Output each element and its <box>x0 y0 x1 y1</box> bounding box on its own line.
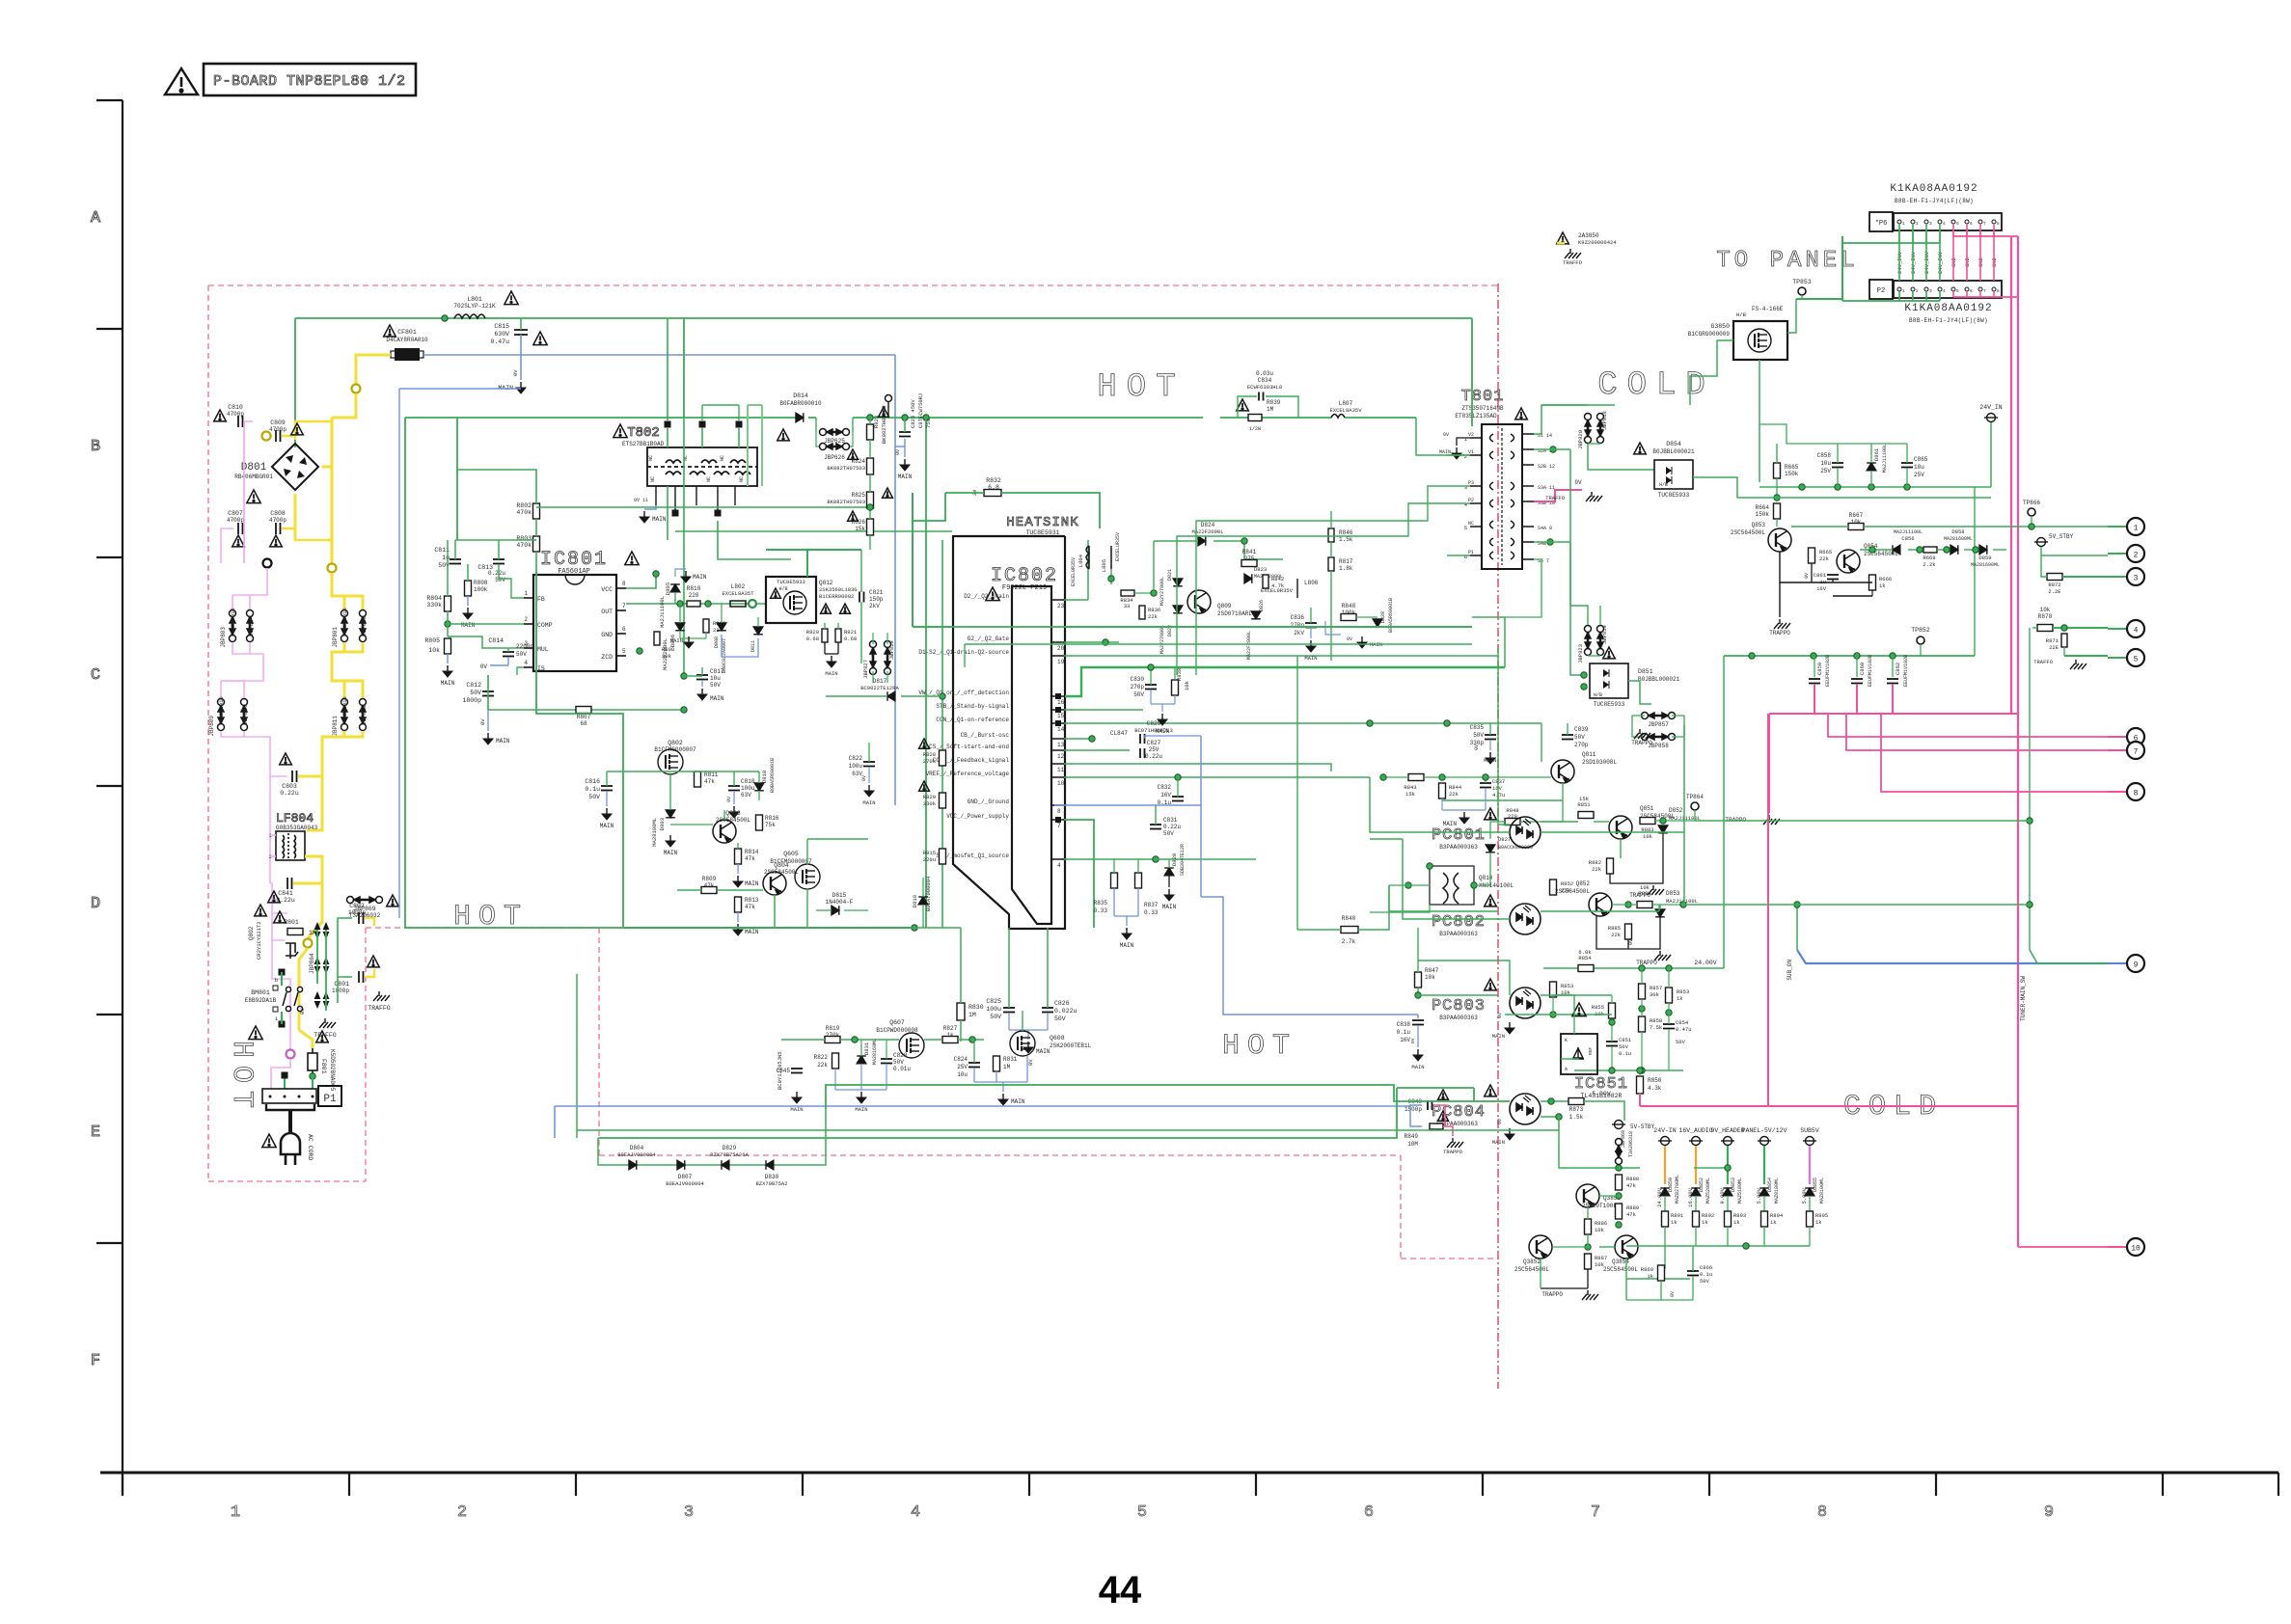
wire blue second rail top <box>399 388 521 390</box>
wire green big loop <box>536 570 623 928</box>
svg-text:16V_AUDIO: 16V_AUDIO <box>1678 1127 1712 1134</box>
wire green jbp857 link <box>1672 716 1684 737</box>
wire green Q809 c <box>1244 541 1283 559</box>
svg-text:100u: 100u <box>986 1006 1001 1013</box>
svg-text:C858: C858 <box>1817 452 1832 459</box>
svg-text:P1: P1 <box>323 1094 337 1105</box>
svg-text:D853: D853 <box>1666 890 1680 897</box>
svg-text:47k: 47k <box>1626 1211 1637 1218</box>
jumper JBP804 <box>247 610 254 642</box>
svg-text:R831: R831 <box>1003 1056 1018 1063</box>
wire green R804 <box>447 540 449 596</box>
capacitor C861 <box>1827 575 1839 580</box>
svg-text:D811: D811 <box>750 640 756 652</box>
inductor L801 <box>454 314 485 318</box>
svg-text:REF: REF <box>1588 1047 1594 1055</box>
resistor R843 <box>1408 774 1424 781</box>
svg-text:10: 10 <box>1057 780 1065 787</box>
svg-text:R808: R808 <box>662 646 674 653</box>
filter CF801 <box>395 348 420 361</box>
wire green Q851 row <box>1655 820 1695 822</box>
svg-text:EXCEL8A35T: EXCEL8A35T <box>722 590 754 597</box>
resistor R802 <box>533 503 540 519</box>
wire 24V-IN colored <box>1664 1146 1666 1184</box>
wire green R848b net <box>1520 821 1563 823</box>
svg-text:702SLYP-121K: 702SLYP-121K <box>453 303 496 310</box>
wire violet cluster1 bottom b <box>249 642 251 654</box>
svg-text:TO PANEL: TO PANEL <box>1716 248 1858 274</box>
capacitor C860 <box>1851 679 1863 684</box>
wire green R846 net <box>1330 511 1332 528</box>
optocoupler PC803 <box>1510 988 1541 1018</box>
wire green out3 <box>2062 576 2108 578</box>
diode D811 <box>753 627 763 635</box>
svg-text:D859: D859 <box>1978 555 1991 561</box>
wire magenta out10 <box>2018 1246 2108 1248</box>
ground MAIN Q608 <box>998 1094 1008 1105</box>
wire green T801 p2 long <box>1177 503 1447 675</box>
svg-text:R835: R835 <box>1094 900 1108 907</box>
wire green T801 pin1 gnd <box>1457 438 1470 446</box>
line-filter LF804 <box>276 831 305 860</box>
svg-text:G2_/_Q2_Gate: G2_/_Q2_Gate <box>968 636 1010 642</box>
resistor R886 <box>1585 1219 1592 1234</box>
svg-text:TUC8E5933: TUC8E5933 <box>1594 701 1625 708</box>
svg-text:NC: NC <box>720 455 725 461</box>
ground TRAPPO C840 <box>1447 1138 1463 1148</box>
svg-text:R851: R851 <box>1577 801 1591 808</box>
capacitor C829 <box>1140 734 1145 744</box>
svg-text:F: F <box>91 1352 100 1370</box>
wire green rail A pin16 to T801 <box>1472 617 1505 667</box>
warning triangle R825 <box>883 488 893 498</box>
ground MAIN C825 <box>1023 1042 1033 1053</box>
diode D807 <box>677 1160 685 1170</box>
svg-text:L806: L806 <box>1304 580 1319 586</box>
svg-text:R815: R815 <box>923 850 936 856</box>
svg-text:D830: D830 <box>765 1174 779 1180</box>
svg-text:C854: C854 <box>1676 1019 1689 1026</box>
wire green T801 p3 long <box>1196 486 1447 675</box>
bottom ruler tick <box>2162 1473 2164 1496</box>
left ruler tick <box>96 785 123 787</box>
svg-text:MA281600ML: MA281600ML <box>1971 562 2000 568</box>
wire green COMP pin <box>448 623 524 625</box>
svg-text:D3850: D3850 <box>1668 1177 1674 1192</box>
diode D822 <box>1173 606 1183 613</box>
svg-text:24V-IN: 24V-IN <box>1653 1127 1677 1134</box>
HOT area dashed boundary top edge <box>208 284 1498 286</box>
capacitor C815 <box>514 330 528 335</box>
warning triangle relay <box>249 1026 262 1040</box>
wire green pc804 net <box>1582 1167 1640 1169</box>
svg-text:Q851: Q851 <box>1640 805 1654 812</box>
wire green D851 right <box>1628 681 1651 704</box>
warning triangle F801 <box>316 1031 329 1042</box>
warning triangle C840 <box>1438 1090 1449 1099</box>
capacitor C823 <box>899 432 911 437</box>
wire green Q812 src <box>824 623 826 629</box>
svg-text:2: 2 <box>457 1503 467 1522</box>
left ruler tick <box>96 1242 123 1244</box>
wire green P6 bus <box>1842 242 1940 244</box>
yellow circle CF801 <box>352 385 361 393</box>
wire green pin14 <box>1064 722 1541 724</box>
svg-text:NC: NC <box>706 476 712 482</box>
svg-text:R827: R827 <box>943 1025 958 1032</box>
svg-text:C826: C826 <box>1054 1000 1070 1007</box>
wire green out4 <box>2053 627 2108 629</box>
svg-text:2: 2 <box>1916 288 1919 294</box>
wire green sub_on vert <box>1796 905 1798 950</box>
svg-text:50V: 50V <box>470 690 481 696</box>
junction rails bus <box>1743 1243 1749 1249</box>
left ruler line <box>122 100 123 1495</box>
svg-text:LF804: LF804 <box>276 811 314 826</box>
svg-text:22k: 22k <box>1449 791 1459 798</box>
svg-text:R836: R836 <box>1148 607 1160 613</box>
ac cord stem <box>288 1110 292 1127</box>
output node 8 <box>2127 783 2144 800</box>
jumper JBP820 <box>1585 414 1592 444</box>
wire magenta R850 bottom <box>1639 1094 1641 1106</box>
svg-text:R846: R846 <box>1339 529 1353 536</box>
svg-text:MAIN: MAIN <box>745 880 759 887</box>
wire green tuner vert <box>2030 950 2108 963</box>
wire yellow cluster1 bottom <box>332 642 344 698</box>
svg-text:Q812: Q812 <box>819 580 833 586</box>
svg-text:NC: NC <box>650 476 656 482</box>
warning triangle R824 <box>848 449 859 459</box>
svg-text:SDB304TE12R: SDB304TE12R <box>1180 844 1186 876</box>
resistor R809 <box>701 887 717 894</box>
npn Q854 <box>1837 550 1860 573</box>
svg-text:100u: 100u <box>849 763 863 770</box>
svg-text:0V: 0V <box>1027 1059 1034 1066</box>
svg-text:Q3852: Q3852 <box>1523 1259 1541 1265</box>
svg-text:9V_HEADER: 9V_HEADER <box>1710 1127 1744 1134</box>
svg-text:10u: 10u <box>957 1071 968 1078</box>
jumper JBP828 <box>885 641 891 675</box>
wire violet LF804 left pins <box>270 834 276 836</box>
svg-text:R891: R891 <box>1671 1212 1684 1219</box>
svg-text:ETS27BB1B0AD: ETS27BB1B0AD <box>622 441 665 447</box>
svg-text:0V: 0V <box>1628 939 1634 945</box>
svg-text:CR2Y1CY821T2: CR2Y1CY821T2 <box>256 921 262 960</box>
wire green R665 top link <box>1776 444 1778 463</box>
wire green 1052 rail <box>1505 1014 1612 1015</box>
svg-text:3: 3 <box>1464 484 1467 491</box>
svg-text:2SC584500L: 2SC584500L <box>716 817 750 824</box>
wire yellow bridge bottom <box>294 494 297 540</box>
svg-text:D808: D808 <box>714 636 720 648</box>
wire green R834 <box>1134 592 1154 594</box>
wire green heatsink left rail <box>941 540 943 928</box>
resistor R846 <box>1328 528 1334 542</box>
svg-text:Q803: Q803 <box>725 810 741 817</box>
svg-text:D851: D851 <box>1638 668 1653 675</box>
svg-text:270p: 270p <box>1291 622 1305 629</box>
svg-text:R853: R853 <box>1561 983 1573 989</box>
warning triangle JBP869 <box>387 895 399 907</box>
jumper JBP810 <box>241 699 248 731</box>
svg-text:BZX79B75A2: BZX79B75A2 <box>755 1180 787 1187</box>
wire green R838 top <box>1174 667 1176 680</box>
bottom ruler tick <box>1255 1473 1257 1496</box>
ground TRAPPO pink <box>1763 815 1780 825</box>
resistor R822 <box>832 1053 839 1069</box>
svg-text:MAIN: MAIN <box>664 850 678 856</box>
wire green S4B down <box>1569 542 1571 606</box>
wire violet C803 left <box>270 775 287 777</box>
svg-text:JBP812: JBP812 <box>361 704 368 725</box>
wire yellow C802 right <box>365 918 374 926</box>
ic IC801 pins right <box>616 587 626 589</box>
svg-text:STB_/_Stand-by-signal: STB_/_Stand-by-signal <box>936 703 1009 710</box>
npn Q851 <box>1609 816 1632 839</box>
svg-text:P1: P1 <box>1468 550 1474 555</box>
svg-text:D807: D807 <box>678 1174 693 1180</box>
resistor R837 <box>1135 873 1142 888</box>
svg-text:R820: R820 <box>806 629 819 636</box>
resistor R821 <box>835 629 841 642</box>
wire violet to jumper cluster 1 <box>232 568 267 595</box>
bottom ruler tick <box>575 1473 577 1496</box>
svg-text:R664: R664 <box>1756 504 1770 511</box>
svg-text:D3853: D3853 <box>1731 1177 1736 1192</box>
wire magenta ic851 bus <box>1640 1105 2018 1107</box>
svg-text:S1_/_mosfet_Q1_source: S1_/_mosfet_Q1_source <box>936 853 1009 859</box>
bottom ruler tick <box>802 1473 804 1496</box>
wire green R835 top <box>1113 859 1115 873</box>
svg-text:Q802: Q802 <box>668 740 683 746</box>
wire magenta out6 <box>1828 714 2108 737</box>
svg-text:MAIN: MAIN <box>1484 757 1496 764</box>
svg-text:Q608: Q608 <box>1050 1035 1065 1042</box>
svg-text:Q605: Q605 <box>783 851 799 857</box>
svg-text:0.33: 0.33 <box>1094 907 1108 914</box>
svg-text:GND: GND <box>601 632 613 638</box>
svg-text:44: 44 <box>1099 1569 1142 1611</box>
wire yellow C808 bridge <box>295 501 332 540</box>
wire yellow CF801 left <box>356 355 391 384</box>
output node 3 <box>2127 568 2144 585</box>
svg-text:TP853: TP853 <box>1792 279 1812 285</box>
svg-text:0.33: 0.33 <box>1144 909 1159 916</box>
wire magenta out7 <box>1846 714 2108 750</box>
wire green rail 650 left stub <box>912 493 914 627</box>
svg-text:1800p: 1800p <box>462 697 481 704</box>
wire yellow cluster1 bottom b <box>344 642 363 652</box>
capacitor C835 <box>1485 735 1496 740</box>
wire green diode row right <box>801 1109 826 1165</box>
svg-text:25V: 25V <box>1914 472 1924 478</box>
svg-text:1k: 1k <box>1671 1219 1677 1226</box>
svg-text:C807: C807 <box>228 510 243 517</box>
svg-text:D820: D820 <box>1171 853 1178 866</box>
wire green heatsink bottom rail <box>623 927 914 929</box>
wire green Q811 wiring <box>1562 783 1564 800</box>
wire magenta P6 bus <box>1953 235 2018 237</box>
svg-text:MAIN: MAIN <box>1011 1098 1025 1105</box>
jumper JBP819 <box>1597 626 1604 656</box>
wire magenta gnd drop <box>1768 714 1770 813</box>
resistor R827 <box>942 1037 958 1043</box>
output node 7 <box>2127 742 2144 759</box>
capacitor C822 <box>863 762 875 767</box>
wire blue C816 <box>606 791 608 806</box>
wire green D854 right <box>1693 477 1773 498</box>
svg-text:10k: 10k <box>1643 833 1653 840</box>
svg-text:D3852: D3852 <box>1699 1177 1705 1192</box>
svg-text:10k: 10k <box>1595 1261 1605 1268</box>
svg-text:MAIN: MAIN <box>652 516 667 523</box>
svg-text:0V: 0V <box>299 1008 306 1015</box>
mosfet Q608 <box>1010 1031 1035 1056</box>
svg-text:3: 3 <box>2134 575 2139 583</box>
capacitor C854 <box>1663 1024 1675 1029</box>
wire violet down to C841 <box>270 883 287 913</box>
svg-text:R895: R895 <box>1815 1212 1828 1219</box>
wire green Q804 emitter <box>774 895 776 928</box>
wire green 736 up <box>487 675 489 710</box>
junction rail736 <box>681 707 687 713</box>
resistor R895 <box>1807 1211 1814 1227</box>
svg-text:COLD: COLD <box>1597 367 1715 404</box>
junction R804 bottom <box>445 621 450 627</box>
wire green R893 bottom <box>1727 1227 1729 1246</box>
inductor L804 <box>1088 546 1090 569</box>
svg-text:CF801: CF801 <box>397 329 417 336</box>
wire green long 902 <box>1541 723 1542 762</box>
svg-text:10k: 10k <box>1595 1227 1605 1233</box>
svg-text:6: 6 <box>1364 1503 1374 1522</box>
svg-text:7: 7 <box>622 603 626 609</box>
terminal PANEL-5V/12V <box>1758 1137 1771 1146</box>
svg-text:50V: 50V <box>1473 732 1484 739</box>
svg-text:50V: 50V <box>1574 734 1585 741</box>
svg-text:B3PAA000363: B3PAA000363 <box>1439 844 1478 851</box>
test point TP852 <box>1917 636 1924 644</box>
svg-text:JBP818: JBP818 <box>1601 411 1608 430</box>
svg-text:D810: D810 <box>761 771 768 783</box>
wire green relay top pin <box>281 972 283 986</box>
svg-text:R832: R832 <box>986 477 1001 484</box>
svg-text:1.5k: 1.5k <box>1569 1114 1584 1121</box>
wire green r664 col <box>1773 497 1991 499</box>
svg-text:8: 8 <box>1057 808 1061 815</box>
svg-text:T3A205016: T3A205016 <box>341 608 348 636</box>
svg-text:TP866: TP866 <box>2023 500 2040 506</box>
svg-text:R840: R840 <box>1342 915 1356 922</box>
wire yellow cluster2 top b <box>344 681 363 698</box>
wire green Q608 top <box>1022 1011 1023 1031</box>
warning triangle T801 <box>1515 408 1528 420</box>
svg-text:220u: 220u <box>923 856 936 863</box>
svg-text:B1CERR00002: B1CERR00002 <box>819 593 854 600</box>
wire blue pin8 <box>1054 804 1201 806</box>
diode chain D859 <box>1979 545 1987 555</box>
wire green R827 <box>924 1039 942 1041</box>
capacitor C827 <box>1140 748 1145 758</box>
resistor R820 <box>822 629 828 642</box>
svg-text:MAIN: MAIN <box>1439 449 1451 455</box>
mosfet Q607 <box>899 1033 924 1058</box>
svg-text:Q853: Q853 <box>1752 522 1766 528</box>
svg-text:C862: C862 <box>1895 663 1901 675</box>
label TP866 <box>2028 508 2035 516</box>
wire violet cluster2 frame b <box>243 681 245 698</box>
svg-text:MUL: MUL <box>537 646 549 653</box>
svg-text:5V-STBY: 5V-STBY <box>1630 1123 1655 1130</box>
capacitor C858 <box>1832 463 1843 468</box>
svg-text:MAIN: MAIN <box>600 823 614 829</box>
wire yellow to cluster1 <box>332 573 363 609</box>
ground TRAFFO out5 <box>2070 660 2086 669</box>
svg-text:JBP857: JBP857 <box>1648 721 1669 728</box>
capacitor C817 <box>696 675 708 680</box>
resistor R834 <box>1121 590 1134 596</box>
svg-text:2: 2 <box>1916 221 1919 227</box>
capacitor C825 <box>1003 1008 1015 1013</box>
junction pin4 <box>1153 856 1159 862</box>
svg-text:V2: V2 <box>1468 432 1474 438</box>
svg-text:10M: 10M <box>1407 1141 1418 1148</box>
resistor R884 <box>1637 902 1652 908</box>
wire green diode row left <box>598 1138 617 1165</box>
wire green IC851 k <box>1573 1015 1575 1034</box>
svg-text:0.68: 0.68 <box>844 636 857 642</box>
svg-text:4.3k: 4.3k <box>1648 1085 1662 1092</box>
connector P6 tag <box>1869 212 1893 231</box>
svg-text:TRAFFO: TRAFFO <box>314 1032 337 1039</box>
resistor R665 <box>1774 463 1781 478</box>
svg-text:ZTS3507164NB: ZTS3507164NB <box>1461 405 1504 412</box>
jumper JBP823 <box>1585 626 1592 656</box>
wire green R823 chain <box>869 418 871 424</box>
wire violet cluster2 bottom <box>221 731 270 883</box>
terminal 16V_AUDIO <box>1689 1137 1703 1146</box>
svg-text:EXCELUR35V: EXCELUR35V <box>1115 532 1121 561</box>
svg-text:1: 1 <box>2134 525 2139 533</box>
output node 9 <box>2127 955 2144 972</box>
capacitor C840 <box>1428 1100 1432 1110</box>
wire green pin7 vcc <box>1064 820 1094 928</box>
wire green JBP864 b <box>325 930 327 1011</box>
wire blue CF801 right <box>423 354 895 356</box>
svg-text:JBP820: JBP820 <box>1577 430 1584 449</box>
resistor R887 <box>1585 1254 1592 1269</box>
inductor L805 <box>1110 546 1112 569</box>
svg-text:H/B: H/B <box>1659 482 1668 488</box>
wire green horiz 433 <box>405 417 796 419</box>
wire green Q812 drain top <box>766 549 861 551</box>
svg-text:275: 275 <box>1244 555 1255 562</box>
resistor R806 <box>654 632 660 645</box>
svg-text:22k: 22k <box>1819 555 1830 562</box>
HOT area dashed boundary step down <box>598 928 600 1155</box>
capacitor C851 <box>1606 1042 1618 1046</box>
svg-text:B1CGRG000009: B1CGRG000009 <box>1688 331 1731 338</box>
wire green rail 668 <box>965 643 1472 645</box>
resistor R842 <box>1263 575 1268 588</box>
svg-text:JBP811: JBP811 <box>332 716 339 737</box>
svg-text:1500p: 1500p <box>1405 1106 1422 1113</box>
svg-text:33: 33 <box>1124 603 1131 609</box>
terminal 5V_STBY <box>2034 538 2048 547</box>
svg-text:8: 8 <box>622 581 626 587</box>
resistor R860 <box>1658 1265 1665 1281</box>
